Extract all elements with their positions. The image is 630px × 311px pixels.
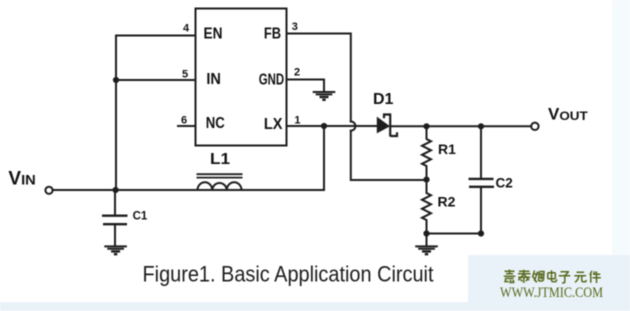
svg-text:6: 6 — [181, 115, 187, 127]
svg-text:C1: C1 — [133, 210, 148, 222]
svg-text:EN: EN — [204, 25, 223, 42]
char zi (子) — [559, 272, 571, 283]
svg-text:WWW.JTMIC.COM: WWW.JTMIC.COM — [500, 285, 603, 301]
char dian (电) — [548, 270, 557, 281]
wire L1 riser — [323, 126, 325, 190]
svg-text:IN: IN — [206, 71, 221, 88]
char tai (泰) — [518, 270, 531, 283]
wire FB pin3 to divider — [287, 34, 351, 122]
junction node R2 bottom — [423, 230, 429, 236]
wire NC pin6 stub — [178, 125, 195, 127]
ground R2 — [415, 246, 438, 254]
capacitor C2 plates — [469, 179, 495, 187]
svg-text:L1: L1 — [210, 151, 230, 168]
svg-text:R2: R2 — [438, 194, 456, 210]
wire bottom to C2 — [427, 233, 482, 235]
wire EN pin4 — [116, 36, 195, 191]
wire D1 cathode to VOUT — [391, 125, 530, 127]
svg-text:NC: NC — [206, 115, 225, 132]
junction node C2 bottom — [478, 230, 484, 236]
svg-text:4: 4 — [183, 23, 190, 35]
resistor R1 — [422, 126, 431, 179]
char yuan (元) — [574, 272, 586, 282]
svg-text:1: 1 — [294, 114, 300, 126]
svg-text:D1: D1 — [373, 91, 394, 108]
resistor R2 — [422, 180, 431, 234]
char jian (件) — [590, 271, 601, 283]
svg-text:C2: C2 — [496, 176, 513, 191]
svg-text:LX: LX — [264, 116, 283, 133]
junction node FB divider — [423, 177, 429, 183]
capacitor C1 plates — [102, 216, 128, 225]
svg-text:2: 2 — [294, 66, 300, 78]
terminal VOUT — [531, 123, 538, 130]
junction node LX/L1 — [321, 123, 327, 129]
wire R2 ground lead — [426, 234, 428, 246]
char jia (嘉) — [504, 270, 516, 283]
svg-text:R1: R1 — [438, 141, 456, 157]
wire LX pin1 — [287, 125, 377, 127]
wire FB vertical lower — [351, 131, 427, 180]
IC U1 body — [196, 9, 287, 146]
svg-text:Figure1. Basic Application Cir: Figure1. Basic Application Circuit — [143, 262, 434, 287]
char mu (姆) — [533, 271, 544, 283]
inductor L1 — [197, 174, 243, 190]
wire hop over LX — [351, 122, 356, 131]
terminal VIN — [45, 187, 52, 194]
svg-text:GND: GND — [259, 71, 284, 88]
junction node VIN/C1 — [113, 187, 119, 193]
wire C1 bottom lead — [114, 225, 116, 246]
svg-text:VIN: VIN — [8, 169, 35, 190]
wire IN pin5 — [116, 79, 195, 81]
junction node IN — [113, 77, 119, 83]
wire GND pin2 — [287, 80, 324, 91]
ground C1 — [104, 246, 127, 254]
svg-text:5: 5 — [182, 69, 188, 81]
wire VIN rail — [54, 189, 325, 191]
wire C1 top lead — [114, 190, 116, 215]
junction node C2 top — [478, 123, 484, 129]
svg-text:3: 3 — [292, 21, 298, 33]
diode D1 schottky — [377, 113, 397, 136]
watermark chinese line — [504, 270, 601, 284]
capacitor C2 leads — [480, 126, 482, 178]
ground pin2 — [313, 92, 336, 100]
junction node R1 top — [423, 123, 429, 129]
svg-text:FB: FB — [264, 25, 281, 42]
